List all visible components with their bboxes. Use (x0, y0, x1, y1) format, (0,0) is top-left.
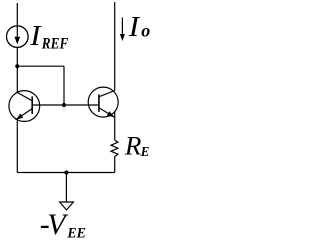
wire: right rail top Io lead down to Q2 collector (114, 2, 116, 91)
transistor Q2 NPN (88, 87, 118, 117)
node B junction dot on base bus (62, 103, 66, 107)
transistor Q1 mirrored NPN diode-connected (9, 91, 40, 122)
label I_REF (29, 21, 68, 53)
svg-text:I: I (128, 12, 141, 43)
label R_E (124, 131, 150, 160)
wire: feedback corner down to base node vertical (63, 66, 65, 105)
resistor RE zigzag (111, 140, 118, 157)
wire: stub down to VEE symbol (65, 173, 67, 203)
label -V_EE (40, 208, 86, 240)
node A junction dot (15, 64, 19, 68)
label I_o (128, 12, 151, 43)
current arrow Io (120, 18, 125, 42)
current source IREF symbol (6, 26, 28, 48)
svg-text:o: o (141, 21, 150, 41)
node C junction dot ground tap (64, 170, 68, 174)
wire: resistor bottom to rail corner (114, 157, 116, 173)
svg-text:EE: EE (66, 226, 86, 240)
svg-text:E: E (140, 145, 150, 160)
wire: Q2 emitter down to resistor (114, 112, 116, 140)
svg-text:I: I (29, 21, 42, 52)
svg-text:REF: REF (41, 36, 69, 53)
VEE supply open triangle (60, 202, 74, 210)
svg-text:R: R (124, 131, 142, 160)
wire: node A to feedback corner horizontal (17, 65, 64, 67)
wire: base bus from Q1 base to Q2 base (32, 104, 99, 106)
wire: left rail top into current source (16, 3, 18, 26)
wire: bottom rail (17, 172, 114, 174)
wire: current source to node A and down to Q1 collector (16, 47, 18, 92)
wire: Q1 emitter down to bottom rail (16, 119, 18, 173)
